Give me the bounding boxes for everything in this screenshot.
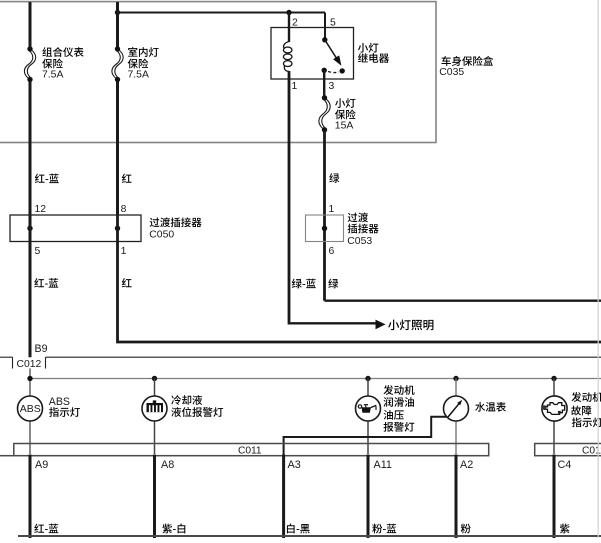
label: ABS指示灯: [49, 396, 80, 417]
wire: relay coil pin 2 drop: [288, 13, 290, 43]
page right edge shade: [597, 0, 599, 538]
svg-text:B9: B9: [35, 343, 48, 355]
label: 组合仪表保险 7.5A: [42, 47, 84, 80]
label: wire color 绿-蓝: [292, 279, 302, 289]
label: wire color 粉: [461, 524, 471, 534]
fuse F3 小灯保险 15A: [319, 95, 330, 132]
wire: battery feed bus (top horizontal): [118, 12, 326, 14]
svg-text:7.5A: 7.5A: [42, 69, 63, 80]
wire: temp gauge second terminal L-run to pin A3: [284, 417, 447, 455]
label: 过渡插接器 C050: [149, 217, 201, 240]
wire: combination meter fuse vertical (red-blue circuit): [29, 2, 32, 50]
label: wire color 紫-白: [162, 524, 172, 534]
relay coil winding: [283, 42, 292, 72]
wire: bus stub to coolant lamp: [154, 379, 156, 397]
node: bus junction coolant lamp: [152, 376, 157, 381]
lamp: coolant level warning circle: [142, 396, 167, 421]
node: bus junction oil lamp: [365, 376, 370, 381]
svg-text:5: 5: [330, 18, 336, 29]
label: 小灯照明: [388, 320, 399, 331]
svg-text:7.5A: 7.5A: [128, 69, 149, 80]
node: junction relay coil pin 2 feed: [286, 10, 291, 15]
label: 车身保险盒 C035: [439, 56, 493, 78]
wire: ABS lamp to C011: [29, 421, 31, 454]
fuse box C035 outline (车身保险盒): [0, 2, 436, 143]
label: 水温表: [475, 402, 485, 412]
wire: relay coil pin 1 to green-blue circuit: [288, 71, 291, 325]
page bottom rule: [18, 535, 601, 537]
wire: A2 output: [455, 455, 458, 539]
label: 小灯保险 15A: [335, 98, 356, 131]
wire: coolant lamp to C011: [154, 421, 156, 454]
wire: A3 output: [282, 455, 285, 539]
label: wire color 绿 lower: [328, 279, 338, 289]
svg-text:1: 1: [121, 246, 127, 257]
svg-text:C035: C035: [439, 67, 464, 78]
wire: C4 output: [553, 455, 556, 539]
fuse F1 组合仪表保险 7.5A: [24, 46, 35, 82]
icon: coolant reservoir: [147, 400, 164, 412]
wire: fuse output green circuit vertical: [323, 130, 326, 301]
wire: red-blue down to connector C012: [29, 216, 32, 358]
svg-text:1: 1: [292, 81, 298, 92]
wire: green-blue turns right to 小灯照明 arrow: [289, 322, 377, 324]
wire: A11 output: [367, 455, 370, 539]
node: bus junction temp gauge: [453, 376, 458, 381]
connector C012 lower box (clipped at right): [535, 444, 601, 456]
svg-text:5: 5: [35, 246, 41, 257]
svg-text:1: 1: [329, 204, 335, 215]
label: 室内灯保险 7.5A: [128, 47, 159, 80]
wire: engine lamp to C011: [553, 421, 555, 454]
wire: oil lamp to C011: [367, 421, 369, 454]
connector C050 过渡插接器 box: [10, 215, 141, 242]
svg-text:C012: C012: [17, 359, 42, 370]
label: wire color 红-蓝: [34, 524, 44, 533]
svg-text:2: 2: [292, 18, 298, 29]
wire: A8 output: [153, 455, 156, 539]
wire: instrument feed bus: [30, 378, 601, 380]
label: 小灯继电器: [358, 43, 389, 63]
svg-text:ABS: ABS: [20, 403, 41, 415]
icon: oil can: [358, 405, 376, 413]
wire: bus stub to oil lamp: [367, 379, 369, 397]
label: 发动机润滑油油压报警灯: [383, 385, 414, 432]
wire: red circuit turns right to page edge: [118, 216, 601, 343]
connector C053 过渡插接器 box: [306, 215, 344, 242]
svg-text:ABS: ABS: [49, 396, 70, 408]
wire: temp gauge to C011 pin A2: [455, 421, 457, 454]
label: 过渡插接器 C053: [347, 212, 378, 246]
svg-text:A3: A3: [288, 459, 301, 471]
label: 冷却液液位报警灯: [171, 395, 223, 417]
label: 发动机故障指示灯: [571, 392, 601, 427]
label: wire color 白-黑: [287, 524, 295, 534]
wire: relay switch pin 5 drop: [324, 13, 326, 40]
svg-text:A11: A11: [374, 459, 392, 471]
node: C053 pin junction: [322, 226, 327, 231]
svg-text:15A: 15A: [335, 121, 354, 132]
svg-text:C4: C4: [558, 459, 572, 471]
relay K1 小灯继电器 box: [271, 28, 354, 80]
label: wire color 紫: [560, 524, 570, 534]
icon: check-engine symbol: [543, 403, 565, 415]
svg-text:C053: C053: [347, 236, 372, 247]
svg-text:6: 6: [329, 246, 335, 257]
relay switch: fixed contact, movable arm with arrow, contacts: [322, 37, 345, 74]
wire: stub C012 to bus: [29, 369, 31, 397]
wire: relay pin 3 to fuse: [323, 70, 325, 98]
svg-text:C011: C011: [238, 445, 262, 456]
icon: gauge needle: [448, 400, 462, 417]
label: wire color 红 lower: [122, 278, 132, 287]
label: wire color 粉-蓝: [372, 524, 382, 534]
wire: bus stub to engine lamp: [553, 379, 555, 397]
lamp: engine fault indicator circle: [542, 396, 567, 421]
label: wire color 绿 (green) upper: [329, 173, 339, 183]
node: bus junction ABS lamp: [27, 376, 32, 381]
connector C012 in-line connector line with label: [0, 357, 601, 368]
node: bus junction engine lamp: [551, 376, 556, 381]
connector C011 box: [14, 444, 489, 456]
lamp: ABS indicator circle: [18, 396, 43, 421]
wire: bus stub to temp gauge: [455, 379, 457, 397]
fuse F2 室内灯保险 7.5A: [112, 46, 123, 82]
label: wire color 红 (red) upper: [122, 174, 132, 183]
wire: interior lamp fuse vertical (red circuit): [116, 2, 119, 50]
wire: C011 box bottom edge extension to page edge: [0, 455, 14, 457]
svg-text:A8: A8: [161, 459, 174, 471]
node: C050 pin 12/5 junction: [27, 226, 32, 231]
label: wire color 红-蓝 (red-blue) upper: [35, 174, 45, 183]
node: C050 pin 8/1 junction: [115, 226, 120, 231]
svg-text:12: 12: [35, 204, 47, 215]
svg-text:A9: A9: [35, 459, 48, 471]
wire: green circuit turns right to page edge: [325, 300, 601, 302]
gauge: water temperature 水温表 circle: [444, 396, 469, 421]
arrowhead to 小灯照明: [376, 320, 386, 330]
node: junction of interior-lamp fuse wire and top feed: [115, 10, 120, 15]
svg-text:C050: C050: [149, 229, 174, 240]
wire: A9 output: [29, 455, 32, 539]
lamp: oil pressure warning circle: [356, 396, 381, 421]
svg-text:8: 8: [121, 204, 127, 215]
label: wire color 红-蓝 lower: [34, 278, 44, 287]
svg-text:A2: A2: [460, 459, 473, 471]
svg-text:3: 3: [329, 81, 335, 92]
